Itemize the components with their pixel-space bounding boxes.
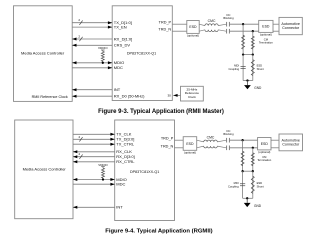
svg-text:Connector: Connector	[282, 142, 300, 146]
svg-text:CMC: CMC	[207, 135, 215, 139]
svg-text:VDDIO: VDDIO	[98, 46, 108, 50]
svg-text:Shunt: Shunt	[257, 184, 264, 188]
svg-text:ESD: ESD	[257, 181, 263, 185]
svg-text:Termination: Termination	[259, 41, 273, 45]
svg-text:ESD: ESD	[189, 25, 197, 29]
svg-text:TRD_N: TRD_N	[158, 28, 171, 32]
svg-text:TX_EN: TX_EN	[114, 24, 127, 29]
svg-text:ESD: ESD	[261, 142, 269, 146]
svg-text:30: 30	[167, 94, 171, 98]
svg-text:Blocking: Blocking	[223, 16, 234, 20]
svg-text:DP83TC81XX-Q1: DP83TC81XX-Q1	[130, 170, 159, 174]
svg-text:(optional): (optional)	[260, 33, 272, 37]
svg-text:2: 2	[78, 35, 80, 39]
svg-text:Clock: Clock	[188, 95, 196, 99]
svg-text:CRS_DV: CRS_DV	[114, 43, 131, 48]
svg-text:MDC: MDC	[114, 65, 123, 70]
svg-text:ESD: ESD	[262, 25, 270, 29]
svg-text:Coupling: Coupling	[228, 67, 239, 71]
svg-text:TRD_N: TRD_N	[161, 144, 174, 148]
svg-text:CMC: CMC	[208, 19, 216, 23]
svg-text:2: 2	[78, 18, 80, 22]
svg-text:Blocking: Blocking	[223, 132, 234, 136]
svg-text:INT: INT	[116, 205, 123, 210]
svg-text:Termination: Termination	[257, 158, 271, 162]
svg-text:RMII Reference Clock: RMII Reference Clock	[32, 95, 68, 99]
svg-text:RX_D[1:0]: RX_D[1:0]	[114, 36, 132, 41]
svg-text:(optional): (optional)	[184, 150, 196, 154]
svg-text:RX_D0 (50-MHz): RX_D0 (50-MHz)	[114, 94, 145, 99]
svg-text:RX_CTRL: RX_CTRL	[116, 159, 135, 164]
svg-text:Shunt: Shunt	[257, 67, 264, 71]
svg-text:Media Access Controller: Media Access Controller	[21, 50, 65, 55]
svg-text:TRD_P: TRD_P	[161, 137, 174, 141]
svg-text:ESD: ESD	[257, 64, 263, 68]
svg-text:Figure 9-4. Typical Applicatio: Figure 9-4. Typical Application (RGMII)	[105, 228, 212, 234]
svg-text:MDC: MDC	[116, 182, 125, 187]
svg-text:INT: INT	[114, 87, 121, 92]
svg-text:TRD_P: TRD_P	[159, 21, 172, 25]
svg-text:Figure 9-3. Typical Applicatio: Figure 9-3. Typical Application (RMII Ma…	[98, 109, 224, 115]
svg-text:TX_CTRL: TX_CTRL	[116, 142, 135, 147]
svg-text:4: 4	[78, 135, 80, 139]
svg-text:4: 4	[78, 152, 80, 156]
svg-text:Media Access Controller: Media Access Controller	[23, 167, 67, 172]
svg-text:CM: CM	[264, 37, 269, 41]
svg-text:MDI: MDI	[234, 64, 239, 68]
svg-text:VDDIO: VDDIO	[98, 163, 108, 167]
svg-text:CM: CM	[262, 155, 267, 159]
svg-text:MDI: MDI	[234, 181, 239, 185]
svg-text:DP83TC81XX-Q1: DP83TC81XX-Q1	[127, 52, 156, 56]
svg-text:(optional): (optional)	[187, 34, 199, 38]
svg-text:GND: GND	[254, 86, 262, 90]
svg-text:Connector: Connector	[282, 26, 300, 30]
svg-text:Coupling: Coupling	[228, 184, 239, 188]
svg-text:ESD: ESD	[186, 142, 194, 146]
svg-text:GND: GND	[254, 204, 262, 208]
svg-text:(optional): (optional)	[258, 150, 270, 154]
